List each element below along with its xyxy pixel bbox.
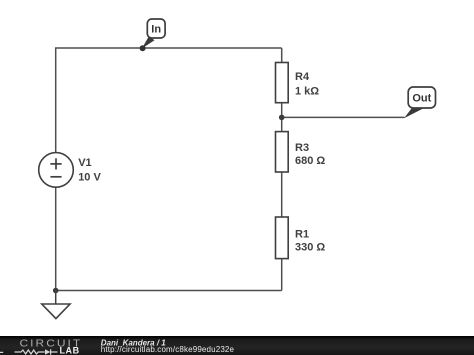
svg-text:680 Ω: 680 Ω: [295, 155, 325, 167]
svg-text:R4: R4: [295, 71, 310, 83]
svg-text:Out: Out: [412, 93, 431, 105]
svg-text:330 Ω: 330 Ω: [295, 241, 325, 253]
svg-text:10 V: 10 V: [78, 171, 101, 183]
svg-text:1 kΩ: 1 kΩ: [295, 85, 319, 97]
svg-text:http://circuitlab.com/c8ke99ed: http://circuitlab.com/c8ke99edu232e: [101, 345, 235, 354]
svg-text:V1: V1: [78, 157, 91, 169]
svg-text:R3: R3: [295, 142, 309, 154]
svg-text:LAB: LAB: [60, 346, 80, 355]
svg-text:R1: R1: [295, 228, 309, 240]
svg-text:In: In: [151, 24, 161, 36]
